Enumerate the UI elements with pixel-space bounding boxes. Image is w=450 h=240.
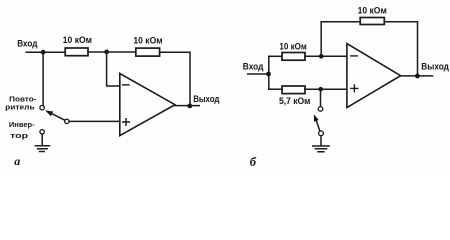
wire pole to ground b [320, 136, 322, 145]
output node a [187, 104, 192, 109]
node input b [266, 72, 271, 77]
wire R2 to corner [160, 51, 190, 53]
wire plus input a (from switch pole) [69, 120, 120, 122]
wire R4 to non-inverting input [305, 88, 347, 90]
switch arrowhead a [45, 110, 53, 116]
wire input b [248, 73, 269, 75]
svg-text:10 кОм: 10 кОм [63, 35, 93, 45]
ground b [313, 146, 329, 152]
resistor R3 10 kOhm [282, 53, 305, 61]
svg-text:Инвер-: Инвер- [9, 120, 35, 129]
node B (summing junction feed) [104, 50, 109, 55]
op-amp U1 triangle [120, 74, 175, 136]
resistor R1 10 kOhm [65, 48, 88, 56]
op-amp U2 triangle [347, 44, 401, 108]
output node b [415, 74, 420, 79]
node D (non-inverting input) [318, 87, 323, 92]
wire to R4 [269, 88, 282, 90]
svg-text:тор: тор [10, 131, 28, 140]
output wire b [401, 75, 433, 77]
wire input a [26, 51, 65, 53]
switch contact circle b (upper) [318, 107, 323, 112]
minus sign U1 [123, 84, 129, 86]
svg-text:5,7 кОм: 5,7 кОм [279, 96, 311, 106]
svg-text:Вход: Вход [17, 38, 37, 48]
minus sign U2 [351, 55, 357, 57]
wire R1 to R2 [88, 51, 136, 53]
wire node A down to follower contact [42, 52, 44, 105]
wire node B down to inverting input [107, 52, 120, 86]
wire R3 to inverting input [305, 55, 347, 57]
svg-text:10 кОм: 10 кОм [133, 36, 163, 46]
svg-text:б: б [250, 155, 257, 169]
switch pole circle b (lower) [319, 131, 324, 136]
wire node D to switch contact [320, 89, 322, 106]
switch contact (follower position) [40, 106, 44, 110]
node A (input node, circuit a) [41, 50, 46, 55]
node C (inverting input / feedback) [319, 54, 324, 59]
switch contact (inverter position) [40, 130, 44, 134]
wire feedback loop b [321, 22, 417, 76]
output wire a [175, 105, 199, 107]
resistor R5 10 kOhm (feedback) [360, 18, 384, 25]
switch arrowhead b [314, 114, 319, 121]
resistor R2 10 kOhm (feedback) [136, 48, 160, 56]
wire input split vertical [268, 56, 270, 89]
switch blade b [316, 121, 320, 131]
svg-text:Выход: Выход [421, 61, 449, 71]
wire feedback vertical a [189, 52, 191, 105]
resistor R4 5.7 kOhm [282, 86, 305, 94]
switch pole circle a [65, 119, 69, 123]
ground a [35, 146, 49, 152]
svg-text:10 кОм: 10 кОм [279, 41, 307, 51]
plus sign U1 [123, 119, 130, 126]
svg-text:а: а [14, 154, 20, 168]
svg-text:10 кОм: 10 кОм [358, 6, 388, 16]
wire inverter contact to ground [41, 134, 43, 145]
wire to R3 [269, 55, 282, 57]
svg-text:Выход: Выход [193, 94, 219, 104]
svg-text:ритель: ритель [5, 103, 35, 112]
svg-text:Вход: Вход [243, 62, 264, 72]
switch blade a [51, 113, 65, 120]
plus sign U2 [351, 85, 358, 92]
